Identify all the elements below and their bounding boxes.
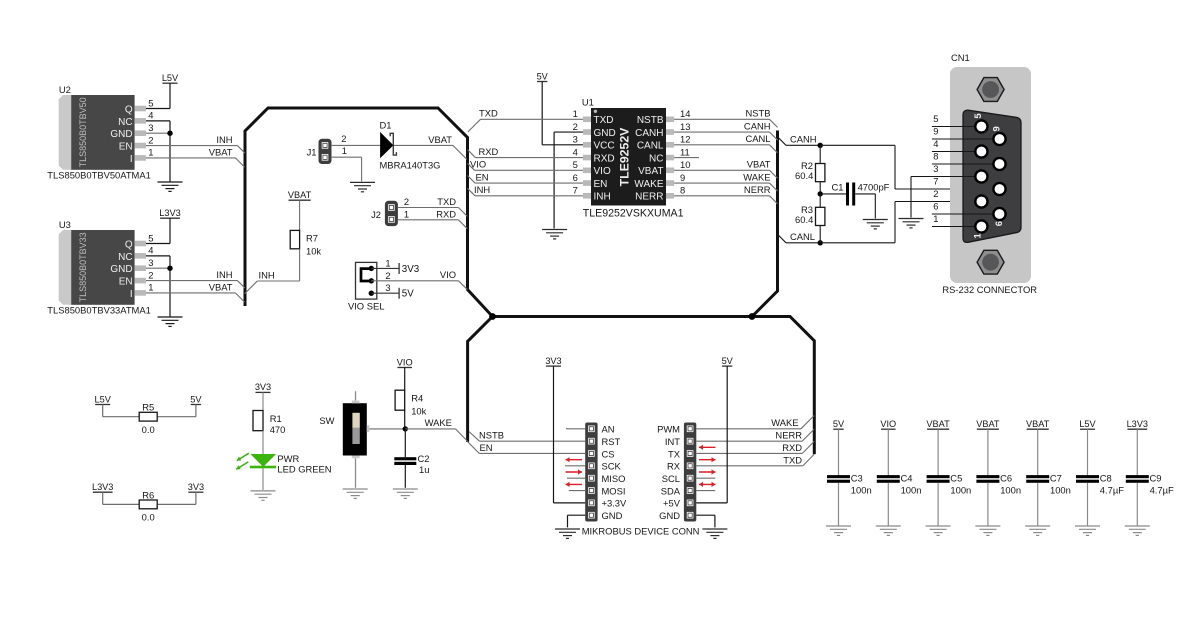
svg-text:100n: 100n [950, 484, 971, 495]
svg-text:INH: INH [216, 134, 232, 145]
svg-text:3: 3 [148, 257, 153, 268]
svg-text:4.7µF: 4.7µF [1150, 484, 1174, 495]
svg-text:60.4: 60.4 [795, 214, 813, 225]
svg-text:CANH: CANH [790, 133, 817, 144]
svg-text:2: 2 [341, 133, 346, 144]
svg-text:VIO: VIO [440, 269, 456, 280]
svg-text:470: 470 [270, 424, 286, 435]
svg-text:5V: 5V [402, 289, 414, 300]
svg-text:NSTB: NSTB [745, 108, 770, 119]
svg-text:SW: SW [319, 415, 334, 426]
svg-text:Q: Q [125, 239, 133, 250]
svg-text:GND: GND [110, 264, 132, 275]
svg-text:11: 11 [680, 146, 690, 157]
svg-text:1: 1 [148, 282, 153, 293]
svg-text:CANL: CANL [790, 231, 815, 242]
svg-text:1: 1 [933, 213, 938, 224]
svg-text:5: 5 [148, 97, 153, 108]
svg-text:5V: 5V [722, 356, 734, 366]
svg-text:Q: Q [125, 104, 133, 115]
svg-text:VIO: VIO [880, 419, 896, 429]
svg-text:1: 1 [972, 232, 983, 238]
svg-text:MOSI: MOSI [602, 485, 626, 496]
svg-text:VBAT: VBAT [209, 282, 233, 293]
svg-text:1: 1 [573, 108, 578, 119]
svg-text:VIO: VIO [594, 166, 611, 177]
svg-text:EN: EN [119, 141, 133, 152]
svg-text:10k: 10k [306, 245, 321, 256]
svg-text:TLS850B0TBV50ATMA1: TLS850B0TBV50ATMA1 [47, 170, 151, 181]
svg-text:4: 4 [933, 138, 938, 149]
svg-text:3: 3 [573, 134, 578, 145]
svg-text:RS-232 CONNECTOR: RS-232 CONNECTOR [942, 284, 1037, 295]
svg-text:9: 9 [933, 126, 938, 137]
svg-text:1u: 1u [419, 464, 429, 475]
svg-text:EN: EN [480, 442, 493, 453]
svg-text:+3.3V: +3.3V [602, 498, 628, 509]
svg-text:4: 4 [573, 146, 578, 157]
svg-text:WAKE: WAKE [771, 417, 798, 428]
svg-text:D1: D1 [380, 120, 392, 131]
svg-text:U2: U2 [59, 84, 71, 95]
svg-text:SCK: SCK [602, 461, 622, 472]
svg-text:0.0: 0.0 [142, 512, 155, 523]
svg-text:EN: EN [594, 179, 608, 190]
svg-text:PWM: PWM [657, 424, 680, 435]
svg-text:L3V3: L3V3 [1127, 419, 1148, 429]
svg-text:4: 4 [148, 245, 153, 256]
svg-text:R4: R4 [411, 393, 423, 404]
svg-text:13: 13 [680, 121, 690, 132]
svg-text:100n: 100n [901, 484, 922, 495]
svg-text:1: 1 [404, 208, 409, 219]
svg-text:3V3: 3V3 [402, 264, 420, 275]
svg-text:C6: C6 [1000, 473, 1012, 484]
svg-text:CANH: CANH [744, 120, 771, 131]
svg-text:NC: NC [118, 252, 132, 263]
svg-text:NERR: NERR [635, 192, 663, 203]
svg-text:VBAT: VBAT [428, 134, 452, 145]
svg-text:3V3: 3V3 [545, 356, 561, 366]
svg-text:MISO: MISO [602, 473, 626, 484]
svg-text:3V3: 3V3 [188, 482, 204, 492]
svg-text:TXD: TXD [479, 108, 498, 119]
svg-text:1: 1 [148, 147, 153, 158]
svg-text:10: 10 [680, 159, 690, 170]
svg-text:GND: GND [110, 129, 132, 140]
svg-text:INH: INH [474, 184, 490, 195]
svg-text:6: 6 [573, 172, 578, 183]
svg-text:100n: 100n [1050, 484, 1071, 495]
svg-text:NERR: NERR [744, 184, 771, 195]
svg-text:C9: C9 [1150, 473, 1162, 484]
svg-text:LED GREEN: LED GREEN [277, 463, 331, 474]
svg-text:J1: J1 [307, 146, 317, 157]
svg-text:VBAT: VBAT [288, 190, 312, 200]
svg-text:2: 2 [385, 270, 390, 281]
svg-text:10k: 10k [411, 405, 426, 416]
svg-text:VIO: VIO [470, 159, 486, 170]
svg-text:3V3: 3V3 [255, 382, 271, 392]
svg-text:3: 3 [385, 282, 390, 293]
svg-text:L3V3: L3V3 [159, 208, 180, 218]
svg-text:TLE9252VSKXUMA1: TLE9252VSKXUMA1 [583, 208, 684, 220]
svg-text:1: 1 [385, 257, 390, 268]
svg-text:3: 3 [148, 122, 153, 133]
svg-text:5: 5 [933, 113, 938, 124]
svg-text:8: 8 [680, 185, 685, 196]
svg-text:RX: RX [667, 461, 681, 472]
svg-text:9: 9 [992, 126, 1003, 131]
svg-text:TXD: TXD [437, 196, 456, 207]
svg-text:AN: AN [602, 424, 615, 435]
svg-text:VBAT: VBAT [926, 419, 950, 429]
svg-text:MBRA140T3G: MBRA140T3G [380, 160, 441, 171]
svg-text:INH: INH [259, 269, 275, 280]
svg-text:RST: RST [602, 436, 621, 447]
svg-text:CS: CS [602, 448, 615, 459]
svg-text:4700pF: 4700pF [858, 182, 890, 193]
svg-text:NC: NC [118, 117, 132, 128]
svg-text:GND: GND [602, 510, 623, 521]
svg-text:GND: GND [659, 510, 680, 521]
svg-text:7: 7 [933, 176, 938, 187]
svg-text:3: 3 [933, 163, 938, 174]
svg-text:0.0: 0.0 [142, 424, 155, 435]
svg-text:5: 5 [573, 159, 578, 170]
svg-text:C7: C7 [1050, 473, 1062, 484]
svg-text:VBAT: VBAT [638, 166, 663, 177]
svg-text:VBAT: VBAT [747, 159, 771, 170]
svg-text:TX: TX [668, 448, 681, 459]
svg-text:C5: C5 [950, 473, 962, 484]
svg-text:CANL: CANL [745, 133, 770, 144]
svg-text:1: 1 [342, 145, 347, 156]
svg-text:VBAT: VBAT [1026, 419, 1050, 429]
svg-text:L5V: L5V [95, 394, 112, 404]
svg-text:14: 14 [680, 108, 690, 119]
svg-text:9: 9 [680, 172, 685, 183]
svg-text:C1: C1 [832, 182, 844, 193]
svg-text:5V: 5V [833, 419, 845, 429]
svg-text:100n: 100n [851, 484, 872, 495]
svg-text:WAKE: WAKE [743, 171, 770, 182]
svg-text:VIO SEL: VIO SEL [348, 301, 384, 312]
svg-text:TXD: TXD [783, 454, 802, 465]
svg-text:6: 6 [994, 221, 1005, 226]
svg-text:5V: 5V [190, 394, 202, 404]
svg-text:C8: C8 [1100, 473, 1112, 484]
svg-text:NC: NC [649, 153, 663, 164]
svg-text:U3: U3 [59, 219, 71, 230]
svg-text:TXD: TXD [594, 115, 614, 126]
svg-text:U1: U1 [582, 97, 594, 108]
svg-text:VBAT: VBAT [209, 147, 233, 158]
svg-text:7: 7 [573, 185, 578, 196]
svg-text:VCC: VCC [594, 141, 615, 152]
svg-text:RXD: RXD [479, 146, 499, 157]
svg-text:J2: J2 [371, 209, 381, 220]
svg-text:8: 8 [933, 151, 938, 162]
svg-text:+5V: +5V [663, 498, 681, 509]
svg-text:MIKROBUS DEVICE CONN: MIKROBUS DEVICE CONN [582, 526, 700, 537]
svg-text:2: 2 [404, 196, 409, 207]
svg-text:NSTB: NSTB [479, 430, 504, 441]
svg-text:SCL: SCL [662, 473, 680, 484]
svg-text:L5V: L5V [1079, 419, 1096, 429]
svg-text:CN1: CN1 [951, 52, 970, 63]
svg-text:R6: R6 [142, 489, 154, 500]
svg-text:12: 12 [680, 134, 690, 145]
svg-text:CANH: CANH [635, 128, 663, 139]
svg-text:EN: EN [119, 276, 133, 287]
svg-text:2: 2 [573, 121, 578, 132]
svg-text:TLS850B0TBV33ATMA1: TLS850B0TBV33ATMA1 [47, 305, 151, 316]
svg-text:RXD: RXD [782, 442, 802, 453]
svg-text:C4: C4 [901, 473, 913, 484]
svg-text:100n: 100n [1000, 484, 1021, 495]
svg-text:C2: C2 [418, 453, 430, 464]
svg-text:VIO: VIO [397, 357, 413, 367]
svg-text:NSTB: NSTB [637, 115, 664, 126]
svg-text:R7: R7 [306, 232, 318, 243]
svg-text:RXD: RXD [594, 153, 615, 164]
svg-text:TLS850B0TBV50: TLS850B0TBV50 [78, 97, 88, 167]
svg-text:CANL: CANL [637, 141, 664, 152]
svg-text:5V: 5V [537, 71, 549, 81]
svg-text:5: 5 [973, 113, 984, 119]
svg-text:4: 4 [148, 110, 153, 121]
svg-text:R1: R1 [270, 413, 282, 424]
svg-text:RXD: RXD [436, 208, 456, 219]
svg-text:2: 2 [933, 188, 938, 199]
svg-text:NERR: NERR [775, 430, 802, 441]
svg-text:5: 5 [148, 232, 153, 243]
svg-text:GND: GND [594, 128, 616, 139]
svg-text:SDA: SDA [661, 485, 681, 496]
svg-text:I: I [130, 289, 133, 300]
svg-text:I: I [130, 154, 133, 165]
svg-text:6: 6 [933, 201, 938, 212]
svg-text:L5V: L5V [162, 73, 179, 83]
svg-text:INT: INT [665, 436, 680, 447]
svg-text:VBAT: VBAT [976, 419, 1000, 429]
svg-text:TLE9252V: TLE9252V [618, 127, 632, 187]
svg-text:2: 2 [148, 269, 153, 280]
svg-text:4.7µF: 4.7µF [1100, 484, 1124, 495]
svg-text:WAKE: WAKE [425, 417, 452, 428]
svg-text:2: 2 [148, 134, 153, 145]
svg-text:INH: INH [216, 269, 232, 280]
svg-text:R5: R5 [142, 402, 154, 413]
svg-text:TLS850B0TBV33: TLS850B0TBV33 [78, 232, 88, 302]
svg-text:WAKE: WAKE [634, 179, 663, 190]
svg-text:INH: INH [594, 192, 611, 203]
svg-text:EN: EN [476, 171, 489, 182]
svg-text:60.4: 60.4 [795, 170, 813, 181]
svg-text:L3V3: L3V3 [92, 482, 113, 492]
svg-text:C3: C3 [851, 473, 863, 484]
